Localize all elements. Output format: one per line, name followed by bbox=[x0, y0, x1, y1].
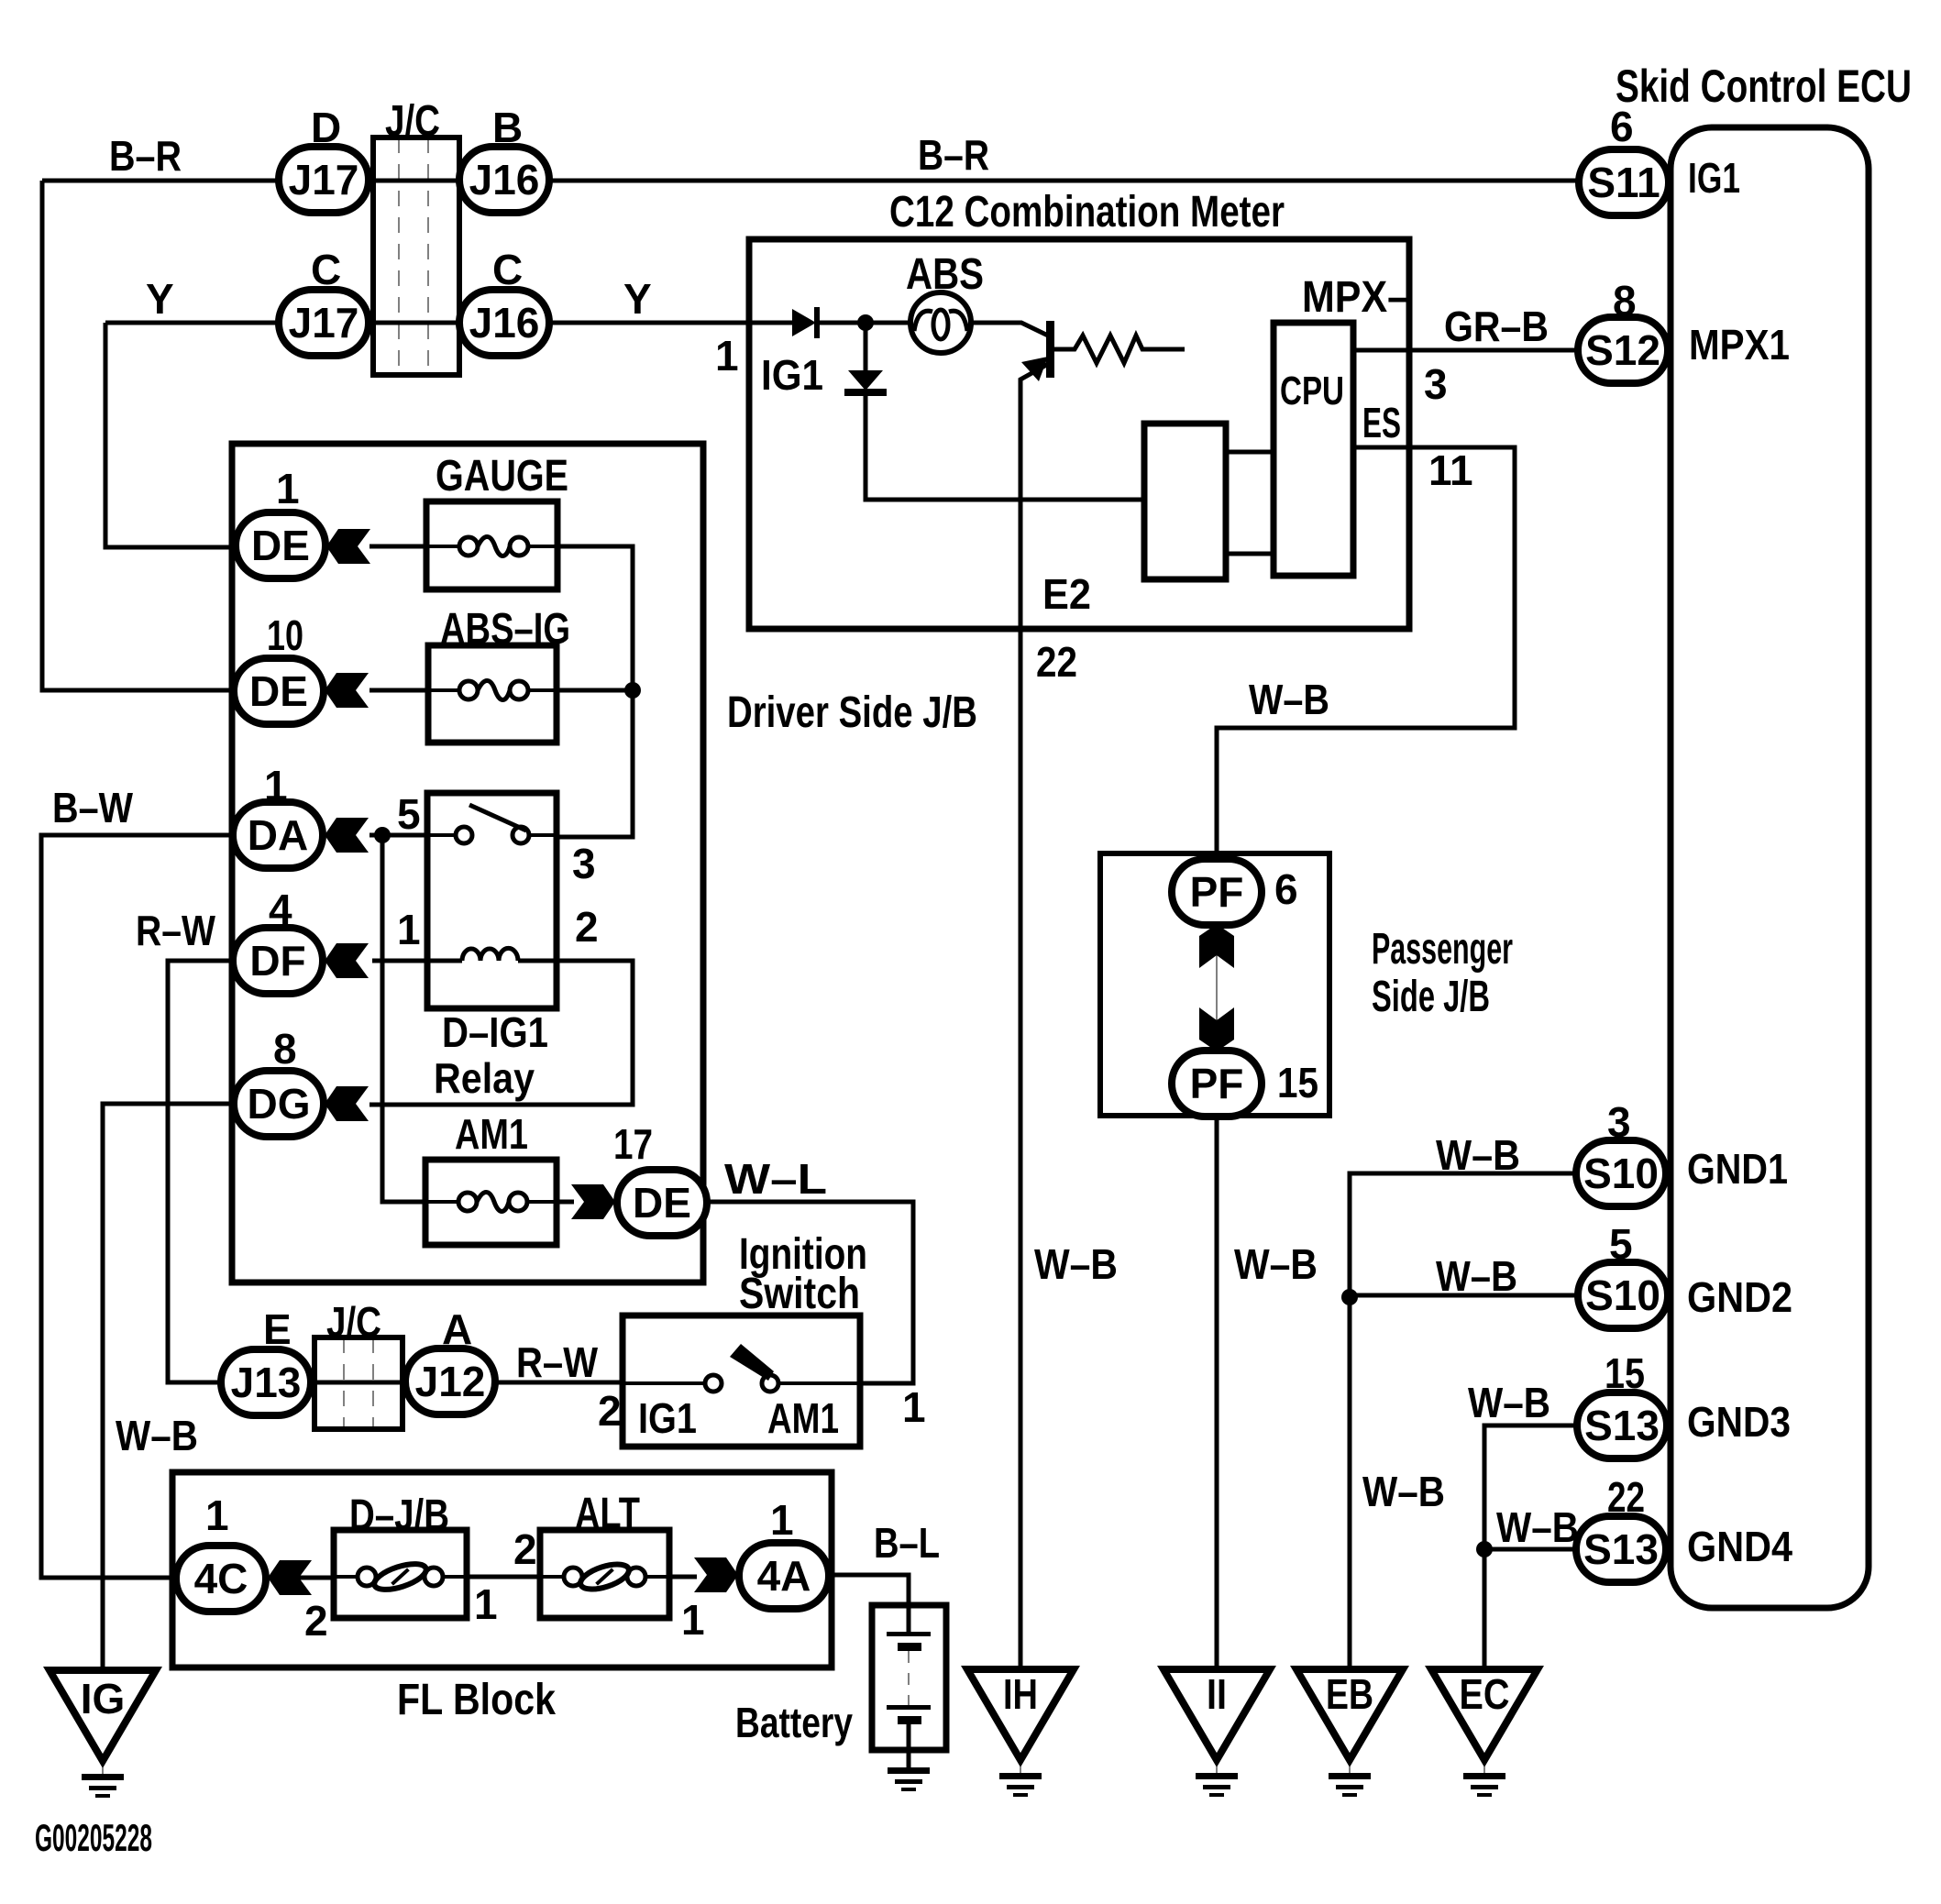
wire emitter / E2 pin 22 down to IH ground bbox=[1020, 363, 1050, 1669]
svg-text:Relay: Relay bbox=[434, 1054, 535, 1102]
svg-text:ABS–IG: ABS–IG bbox=[440, 605, 570, 654]
svg-text:DF: DF bbox=[249, 937, 305, 985]
svg-text:IH: IH bbox=[1003, 1670, 1038, 1718]
svg-text:R–W: R–W bbox=[516, 1338, 598, 1386]
battery cell plates bbox=[887, 1632, 931, 1767]
svg-text:5: 5 bbox=[397, 790, 421, 838]
wire ES pin 11 to passenger J/B PF pin 6 bbox=[1217, 399, 1515, 860]
svg-text:ALT: ALT bbox=[575, 1490, 640, 1538]
wire R-W from J12 to ignition switch IG1 pin 2 bbox=[309, 1338, 623, 1386]
svg-text:GAUGE: GAUGE bbox=[436, 452, 568, 501]
svg-text:3: 3 bbox=[572, 840, 596, 887]
relay contact bbox=[397, 790, 596, 887]
arrow into 4C bbox=[268, 1560, 328, 1645]
connector J17 pin D bbox=[279, 104, 369, 213]
svg-text:Y: Y bbox=[146, 275, 174, 323]
CPU block bbox=[1274, 273, 1409, 576]
svg-text:1: 1 bbox=[681, 1596, 705, 1644]
svg-text:S10: S10 bbox=[1583, 1150, 1659, 1197]
svg-text:1: 1 bbox=[474, 1580, 498, 1628]
svg-text:15: 15 bbox=[1605, 1349, 1645, 1397]
svg-text:GND3: GND3 bbox=[1687, 1398, 1791, 1446]
wire 4C feed inside FL block bbox=[265, 1576, 334, 1580]
wire W-B from DG to IG ground bbox=[103, 1104, 235, 1669]
svg-text:B–L: B–L bbox=[874, 1519, 940, 1567]
arrow PF down bbox=[1199, 1007, 1234, 1051]
connector J16 pin B bbox=[459, 104, 549, 213]
svg-text:J16: J16 bbox=[469, 299, 540, 347]
passenger side J/B box bbox=[1100, 853, 1513, 1116]
svg-text:J/C: J/C bbox=[385, 97, 440, 146]
connector J16 pin C bbox=[459, 246, 549, 356]
arrow into 4A bbox=[694, 1557, 738, 1592]
arrow into DE pin 10 bbox=[325, 673, 369, 708]
svg-text:Skid Control ECU: Skid Control ECU bbox=[1616, 61, 1912, 112]
wire ALT link to 4A bbox=[669, 1575, 697, 1579]
node junction GND4 on EC line bbox=[1476, 1541, 1493, 1557]
svg-text:DA: DA bbox=[248, 811, 308, 859]
resistor R1 at transistor base bbox=[1054, 336, 1185, 363]
svg-text:B–R: B–R bbox=[918, 131, 989, 179]
svg-text:R–W: R–W bbox=[136, 907, 215, 954]
svg-text:1: 1 bbox=[770, 1496, 794, 1544]
svg-text:B: B bbox=[492, 104, 523, 151]
svg-text:S11: S11 bbox=[1587, 159, 1660, 206]
figure number bbox=[35, 1816, 152, 1859]
fuse GAUGE element bbox=[425, 537, 559, 556]
connector S10 pin 3 GND1 bbox=[1576, 1098, 1788, 1206]
svg-text:AM1: AM1 bbox=[767, 1394, 839, 1442]
svg-text:II: II bbox=[1207, 1670, 1227, 1718]
svg-text:E2: E2 bbox=[1042, 570, 1091, 618]
FL block box bbox=[172, 1472, 832, 1724]
svg-text:W–B: W–B bbox=[1496, 1503, 1579, 1551]
svg-text:1: 1 bbox=[902, 1383, 926, 1431]
wire CPU to MPX rectangle lower bbox=[1226, 552, 1274, 556]
svg-text:17: 17 bbox=[613, 1120, 653, 1168]
svg-text:B–W: B–W bbox=[52, 784, 133, 831]
wire DA junction down to AM1 fuse bbox=[382, 835, 425, 1202]
svg-text:PF: PF bbox=[1190, 868, 1244, 916]
connector J13 pin E bbox=[221, 1305, 311, 1415]
svg-text:15: 15 bbox=[1277, 1059, 1318, 1106]
svg-text:W–B: W–B bbox=[1436, 1252, 1517, 1300]
svg-text:S12: S12 bbox=[1585, 326, 1660, 374]
arrow into DG pin 8 bbox=[325, 1086, 369, 1121]
svg-text:C: C bbox=[492, 246, 523, 293]
wire DF to relay coil pin 1 bbox=[372, 959, 427, 963]
svg-text:Y: Y bbox=[623, 275, 652, 323]
svg-text:EB: EB bbox=[1326, 1670, 1373, 1718]
connector DE pin 1 bbox=[236, 465, 325, 578]
svg-text:IG: IG bbox=[81, 1675, 126, 1722]
wire E2 internal ground rail bbox=[866, 393, 1144, 500]
svg-text:W–L: W–L bbox=[724, 1155, 827, 1203]
svg-text:Battery: Battery bbox=[735, 1699, 853, 1746]
svg-text:MPX–: MPX– bbox=[1302, 273, 1409, 322]
battery box bbox=[735, 1605, 946, 1750]
connector J17 pin C bbox=[279, 246, 369, 356]
svg-text:S13: S13 bbox=[1583, 1525, 1659, 1573]
svg-text:5: 5 bbox=[1609, 1220, 1633, 1268]
indicator lamp ABS bbox=[906, 250, 984, 353]
node junction GAUGE/ABS-IG tie bbox=[624, 682, 641, 699]
svg-text:Switch: Switch bbox=[739, 1270, 860, 1318]
arrow into DA pin 1 bbox=[325, 818, 369, 853]
svg-text:Driver Side J/B: Driver Side J/B bbox=[727, 688, 977, 737]
wire D-J/B link to ALT link bbox=[467, 1575, 540, 1579]
wire DA to relay contact pin 5 bbox=[369, 833, 427, 838]
svg-text:Passenger: Passenger bbox=[1372, 925, 1513, 974]
svg-text:EC: EC bbox=[1460, 1670, 1510, 1718]
svg-text:E: E bbox=[263, 1305, 292, 1353]
wire CPU to MPX rectangle upper bbox=[1226, 450, 1274, 455]
connector S13 pin 15 GND3 bbox=[1577, 1349, 1791, 1458]
wire W-B GND3 to EC ground bbox=[1468, 1379, 1576, 1669]
svg-text:J17: J17 bbox=[289, 156, 359, 204]
connector PF pin 15 bbox=[1172, 1051, 1318, 1117]
svg-text:1: 1 bbox=[264, 762, 288, 809]
svg-text:AM1: AM1 bbox=[455, 1110, 528, 1158]
wire W-B GND2 branch bbox=[1350, 1252, 1579, 1300]
svg-text:3: 3 bbox=[1424, 360, 1448, 408]
driver side J/B box bbox=[232, 444, 977, 1282]
fusible link D-J/B bbox=[332, 1491, 498, 1628]
connector DE pin 10 bbox=[234, 611, 324, 724]
junction connector J/C (top) box bbox=[373, 97, 459, 375]
svg-text:2: 2 bbox=[575, 903, 599, 951]
wire W-B GND4 branch bbox=[1484, 1503, 1579, 1551]
node junction DA pin 5 bbox=[374, 827, 391, 843]
svg-text:GND2: GND2 bbox=[1687, 1273, 1792, 1321]
arrow into DE pin 1 bbox=[326, 529, 370, 564]
svg-text:2: 2 bbox=[304, 1597, 328, 1645]
svg-text:8: 8 bbox=[1613, 277, 1637, 325]
svg-text:J16: J16 bbox=[469, 156, 540, 204]
svg-text:4: 4 bbox=[269, 886, 292, 933]
junction connector J/C (lower) box bbox=[314, 1298, 403, 1429]
wire B-L from 4A to battery bbox=[828, 1519, 940, 1634]
svg-text:J/C: J/C bbox=[326, 1298, 381, 1346]
svg-text:ABS: ABS bbox=[906, 250, 984, 299]
svg-text:11: 11 bbox=[1428, 446, 1473, 494]
wire IH label W-B bbox=[1034, 1240, 1118, 1288]
wire AM1 fuse to DE pin 17 bbox=[557, 1200, 574, 1205]
connector 4A pin 1 bbox=[739, 1496, 829, 1609]
svg-text:A: A bbox=[442, 1305, 472, 1353]
svg-text:CPU: CPU bbox=[1280, 369, 1344, 413]
svg-text:10: 10 bbox=[267, 611, 303, 659]
svg-text:J17: J17 bbox=[289, 299, 359, 347]
connector S10 pin 5 GND2 bbox=[1578, 1220, 1792, 1328]
ground below battery bbox=[888, 1767, 930, 1791]
svg-text:J13: J13 bbox=[231, 1359, 302, 1406]
svg-text:6: 6 bbox=[1610, 103, 1634, 150]
connector S11 pin 6 bbox=[1579, 103, 1740, 215]
svg-text:W–B: W–B bbox=[1249, 676, 1329, 723]
connector DG pin 8 bbox=[234, 1025, 324, 1137]
svg-text:GR–B: GR–B bbox=[1444, 303, 1549, 350]
svg-text:IG1: IG1 bbox=[1688, 154, 1740, 202]
zener diode to E2 bbox=[844, 323, 887, 396]
svg-text:W–B: W–B bbox=[1362, 1468, 1445, 1515]
svg-text:G00205228: G00205228 bbox=[35, 1816, 152, 1859]
svg-text:S13: S13 bbox=[1584, 1402, 1660, 1449]
node junction GND2 on EB line bbox=[1341, 1289, 1358, 1305]
svg-text:W–B: W–B bbox=[1234, 1240, 1318, 1288]
svg-text:DE: DE bbox=[251, 522, 310, 569]
combination meter C12 box bbox=[749, 188, 1409, 629]
svg-text:6: 6 bbox=[1274, 865, 1298, 913]
wire lamp feed diode to transistor bbox=[816, 323, 1050, 336]
wire GR-B CPU pin 3 to S12 bbox=[1353, 303, 1578, 408]
svg-text:FL Block: FL Block bbox=[397, 1676, 556, 1724]
fusible link ALT bbox=[513, 1490, 705, 1644]
svg-text:2: 2 bbox=[513, 1525, 537, 1573]
svg-text:1: 1 bbox=[276, 465, 300, 512]
svg-text:W–B: W–B bbox=[116, 1412, 198, 1459]
relay coil bbox=[397, 903, 599, 961]
svg-text:ES: ES bbox=[1362, 399, 1401, 446]
skid control ECU box bbox=[1616, 61, 1912, 1608]
svg-text:B–R: B–R bbox=[109, 132, 182, 180]
arrow into DE pin 17 bbox=[571, 1184, 615, 1219]
ground triangle II bbox=[1163, 1669, 1270, 1797]
label E2 pin 22 bbox=[1036, 570, 1091, 686]
GAUGE fuse box bbox=[426, 452, 568, 589]
ignition switch box bbox=[623, 1230, 867, 1447]
wire relay coil pin 2 down to DG pin 8 bbox=[369, 961, 633, 1105]
wire W-B GND1 to EB ground bbox=[1350, 1131, 1576, 1669]
svg-text:DE: DE bbox=[249, 667, 308, 715]
svg-text:J12: J12 bbox=[415, 1358, 486, 1405]
arrow PF up bbox=[1199, 924, 1234, 1051]
svg-text:W–B: W–B bbox=[1436, 1131, 1520, 1179]
svg-text:2: 2 bbox=[598, 1387, 622, 1435]
svg-text:4C: 4C bbox=[194, 1555, 248, 1602]
fuse AM1 element bbox=[424, 1193, 558, 1212]
transistor Q1 (PNP) bbox=[1021, 321, 1054, 381]
svg-text:1: 1 bbox=[715, 332, 739, 380]
D-IG1 relay box bbox=[427, 793, 557, 1102]
svg-text:D: D bbox=[311, 104, 341, 151]
svg-text:GND4: GND4 bbox=[1687, 1523, 1792, 1570]
svg-text:IG1: IG1 bbox=[638, 1394, 697, 1442]
ABS-IG fuse box bbox=[428, 605, 570, 743]
svg-text:Side J/B: Side J/B bbox=[1372, 973, 1490, 1021]
svg-text:1: 1 bbox=[205, 1491, 229, 1539]
svg-text:PF: PF bbox=[1190, 1060, 1244, 1107]
connector DE pin 17 bbox=[613, 1120, 707, 1236]
svg-text:C: C bbox=[311, 246, 341, 293]
connector PF pin 6 bbox=[1172, 859, 1298, 925]
svg-text:GND1: GND1 bbox=[1687, 1145, 1788, 1193]
svg-text:C12 Combination Meter: C12 Combination Meter bbox=[889, 188, 1285, 237]
svg-text:IG1: IG1 bbox=[761, 351, 823, 399]
diode D1 at meter IG1 input bbox=[715, 307, 823, 399]
wire Y left vertical down to DE pin 1 bbox=[105, 323, 237, 547]
svg-text:3: 3 bbox=[1607, 1098, 1631, 1146]
svg-text:1: 1 bbox=[397, 906, 421, 953]
node junction at diode output bbox=[857, 314, 874, 331]
svg-text:D–J/B: D–J/B bbox=[349, 1491, 449, 1540]
connector DA pin 1 bbox=[233, 762, 323, 868]
MPX communication block bbox=[1144, 424, 1226, 579]
svg-text:S10: S10 bbox=[1585, 1271, 1660, 1319]
wire GAUGE fuse to relay contact vertical bbox=[369, 546, 633, 837]
wire B-W from DA to 4C bbox=[41, 784, 234, 1578]
svg-text:4A: 4A bbox=[757, 1552, 811, 1600]
connector 4C pin 1 bbox=[176, 1491, 266, 1612]
wire B-R left vertical down to DE pin 10 bbox=[42, 181, 236, 690]
connector DF pin 4 bbox=[233, 886, 323, 994]
svg-text:DG: DG bbox=[248, 1080, 311, 1128]
ground triangle IG bbox=[50, 1670, 156, 1798]
wire PF pin 15 down to II ground bbox=[1217, 1116, 1318, 1669]
AM1 fuse box bbox=[425, 1110, 557, 1245]
ground triangle EC bbox=[1431, 1669, 1538, 1797]
svg-text:22: 22 bbox=[1607, 1473, 1645, 1521]
svg-text:22: 22 bbox=[1036, 638, 1077, 686]
svg-text:W–B: W–B bbox=[1034, 1240, 1118, 1288]
connector S13 pin 22 GND4 bbox=[1576, 1473, 1792, 1582]
ground triangle IH bbox=[967, 1669, 1074, 1797]
connector S12 pin 8 bbox=[1578, 277, 1790, 383]
arrow into DF pin 4 bbox=[325, 943, 369, 978]
wire W-L from DE17 to ignition switch AM1 pin 1 bbox=[708, 1155, 913, 1383]
wire R-W from DF to J13 bbox=[136, 907, 234, 1382]
ignition switch contact bbox=[598, 1344, 926, 1442]
wire ABS-IG fuse row bbox=[369, 688, 633, 693]
wire B-R from J17/J16 to S11 (net IG1) bbox=[42, 131, 1579, 181]
svg-text:W–B: W–B bbox=[1468, 1379, 1550, 1426]
svg-text:MPX1: MPX1 bbox=[1689, 321, 1790, 369]
connector J12 pin A bbox=[405, 1305, 495, 1414]
ground triangle EB bbox=[1296, 1669, 1403, 1797]
wire Y from J17/J16 into meter pin 1 bbox=[105, 275, 792, 323]
svg-text:8: 8 bbox=[273, 1025, 297, 1073]
svg-text:DE: DE bbox=[633, 1179, 691, 1227]
svg-text:D–IG1: D–IG1 bbox=[442, 1008, 548, 1056]
fuse ABS-IG element bbox=[425, 681, 559, 700]
